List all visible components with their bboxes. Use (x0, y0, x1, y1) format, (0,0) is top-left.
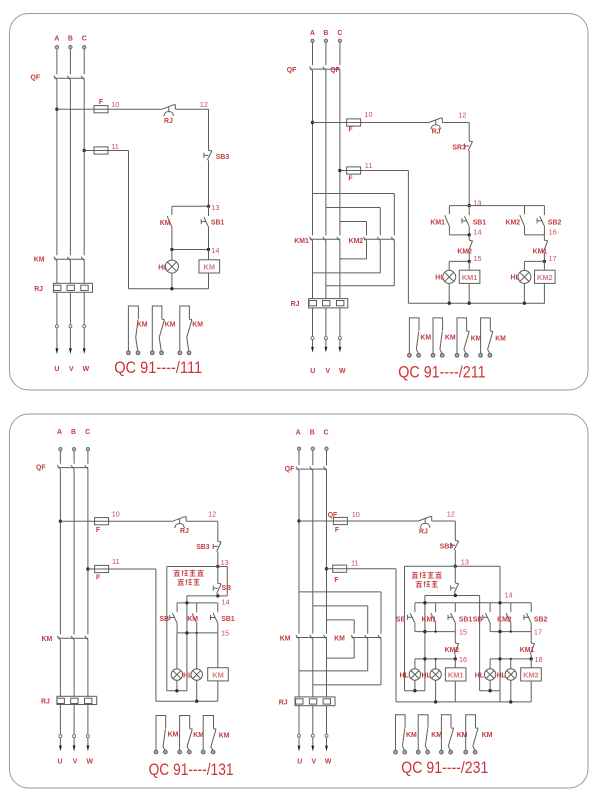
box right conductor (231) (499, 566, 501, 702)
output arrows (131) (59, 745, 89, 751)
rail 16 dots (231) (423, 657, 457, 660)
svg-text:F: F (99, 99, 103, 106)
thermal relay NC contact RJ (211) (429, 118, 442, 129)
svg-text:KM2: KM2 (537, 273, 553, 282)
wire to coil KM (111) (208, 250, 210, 260)
svg-text:13: 13 (211, 203, 219, 212)
label KM aux1 (231) (406, 732, 417, 739)
svg-text:11: 11 (112, 557, 120, 566)
wire phase A middle (211) (312, 70, 314, 235)
node 14 (211) (468, 233, 471, 236)
svg-text:W: W (339, 368, 346, 375)
svg-text:HL: HL (511, 275, 520, 282)
wires to motor terminals (131) (60, 705, 88, 746)
labels U V W (131) (57, 758, 93, 765)
svg-text:KM1: KM1 (430, 219, 445, 226)
svg-text:14: 14 (211, 246, 219, 255)
wire phase C middle (231) (326, 470, 328, 633)
label HL right (211) (511, 275, 520, 282)
svg-text:17: 17 (549, 254, 557, 263)
label 13 (131) (221, 558, 229, 567)
svg-text:KM2: KM2 (445, 647, 460, 654)
output arrows (211) (311, 347, 341, 353)
svg-text:KM: KM (471, 336, 482, 343)
svg-text:SB1: SB1 (473, 219, 487, 226)
svg-text:KM: KM (420, 335, 431, 342)
label KM1 interlock (231) (520, 647, 535, 654)
label KM aux3 (111) (192, 322, 203, 329)
wire loop bottom KM2-c1 to C (211) (340, 241, 367, 259)
svg-text:QF: QF (330, 67, 340, 74)
junction dot rail (131) (185, 601, 188, 604)
remote control box top edge (131) (167, 566, 228, 568)
svg-text:RJ: RJ (41, 699, 50, 706)
wire to lamp HL1 left (231) (414, 659, 416, 669)
indicator lamp HL (111) (165, 260, 178, 273)
auxiliary contact KM 1 (131) (154, 716, 167, 754)
svg-text:10: 10 (352, 510, 360, 519)
control bottom rail (131) (156, 700, 218, 702)
wire loop bottom KM2-c2 to A (231) (299, 639, 368, 671)
svg-text:RJ: RJ (419, 529, 428, 536)
interlock contact KM2 NC (231) (454, 632, 459, 659)
label F fuse-11 (211) (348, 176, 352, 183)
label KM2 (211) (349, 238, 364, 245)
svg-text:SB3: SB3 (216, 154, 230, 161)
junction fuse-10 tap phase A (131) (59, 520, 62, 523)
label 11 (111) (111, 142, 119, 151)
interlock contact KM1 NC (211) (543, 235, 548, 262)
contactor KM bank2 main contacts (231) (351, 635, 381, 639)
label QF second (211) (330, 67, 340, 74)
label SB1 (111) (211, 220, 225, 227)
output arrows (111) (56, 348, 86, 354)
phase input terminals (111) (55, 46, 86, 49)
svg-text:KM1: KM1 (462, 273, 478, 282)
svg-text:KM: KM (168, 731, 179, 738)
svg-text:F: F (96, 527, 100, 534)
indicator lamp HL left (211) (443, 270, 456, 283)
label KM2 aux (211) (506, 219, 521, 226)
label 11 (131) (112, 557, 120, 566)
label SB1 (211) (473, 219, 487, 226)
stop button SR3 NC (211) (465, 141, 473, 151)
wire bar node 14 (211) (449, 234, 469, 236)
label 16 (211) (549, 227, 557, 236)
svg-text:KM2: KM2 (457, 249, 472, 256)
wire lamp2 to rail (211) (523, 283, 525, 303)
stop button SB3 NC (131) (213, 541, 221, 551)
label F fuse-10 (111) (99, 99, 103, 106)
label 14 (231) (505, 591, 513, 600)
wire phase C lower (111) (83, 260, 85, 283)
node 17 (211) (543, 260, 546, 263)
phase input terminals (131) (59, 448, 90, 451)
svg-text:RJ: RJ (279, 700, 288, 707)
label QF (231) (285, 466, 295, 473)
circuit breaker QF (131) (57, 465, 88, 469)
wire bar node 16 (211) (525, 234, 545, 236)
svg-text:SB3: SB3 (440, 543, 454, 550)
label 13 (211) (473, 198, 481, 207)
svg-text:V: V (69, 366, 74, 373)
stop button SB3 NC (231) (451, 541, 459, 551)
label 15 (231) (459, 628, 467, 637)
remote stop button SB NC (231) (451, 566, 459, 595)
svg-text:KM: KM (137, 322, 148, 329)
label SB remote start (131) (160, 616, 170, 623)
label QF left (211) (287, 67, 297, 74)
svg-text:SB1: SB1 (221, 616, 235, 623)
wire to motor U (111) (56, 292, 58, 348)
phase terminal labels A B C (231) (296, 429, 329, 436)
label 16 (231) (459, 655, 467, 664)
junction fuse-10 tap phase A (231) (297, 519, 300, 522)
wire to lamp HL1 right (231) (489, 659, 491, 669)
svg-text:KM: KM (212, 670, 224, 679)
wire phase B middle (111) (69, 79, 71, 255)
remote control box left edge (231) (404, 566, 406, 691)
thermal overload relay RJ block (131) (57, 696, 97, 704)
wire to lamp HL1 (131) (176, 633, 178, 669)
svg-text:W: W (83, 366, 90, 373)
phase terminal labels A B C (111) (54, 35, 86, 42)
svg-text:15: 15 (473, 254, 481, 263)
label F fuse-10 (131) (96, 527, 100, 534)
svg-text:KM: KM (187, 616, 198, 623)
label KM2 interlock (231) (445, 647, 460, 654)
label 12 (111) (200, 100, 208, 109)
remote start button SB NO (131) (170, 603, 177, 633)
indicator lamp HL1 left (231) (409, 669, 420, 680)
svg-text:KM1: KM1 (422, 616, 437, 623)
contactor KM main contacts (131) (57, 636, 88, 640)
node 13 (211) (468, 204, 471, 207)
stub rail (131) (167, 690, 187, 692)
wire lamp1 to stub (131) (176, 680, 178, 691)
start button SB1 NO (231) (448, 603, 455, 632)
svg-text:KM: KM (482, 732, 493, 739)
svg-text:QC 91----/211: QC 91----/211 (398, 363, 485, 381)
wire phase B middle (231) (312, 470, 314, 633)
svg-text:SB1: SB1 (211, 220, 225, 227)
wire to lamp HL2 (211) (523, 261, 525, 270)
svg-text:A: A (296, 429, 301, 436)
remote control box left edge (131) (166, 567, 168, 691)
remote control box label (231) (412, 572, 442, 588)
auxiliary contact KM 1 (111) (126, 306, 139, 355)
wire phase B middle (211) (325, 70, 327, 235)
wire to lamp HL2 right (231) (510, 659, 512, 669)
svg-text:KM: KM (160, 220, 171, 227)
svg-text:QC 91----/131: QC 91----/131 (149, 761, 234, 779)
rail 15 (231) (415, 631, 455, 633)
label F fuse-11 (131) (96, 575, 100, 582)
svg-text:KM2: KM2 (497, 616, 512, 623)
node 15 (211) (468, 260, 471, 263)
wire SB3 to node 13 (131) (217, 551, 219, 566)
label KM bank1 (231) (280, 636, 291, 643)
wire lamp1 to stub (231) (414, 680, 416, 691)
svg-text:QF: QF (31, 75, 41, 82)
contactor coil KM (131) (208, 668, 229, 681)
wire coil to rail (131) (217, 681, 219, 701)
indicator lamp HL2 left (231) (430, 669, 441, 680)
wire 12 vertical (231) (454, 521, 456, 541)
svg-text:KM1: KM1 (520, 647, 535, 654)
fuse F line 11 (111) (94, 147, 108, 154)
node 15 dots (131) (185, 631, 198, 634)
wire line 10 (211) (313, 122, 470, 124)
label KM aux (131) (187, 616, 198, 623)
wire line 11 (111) (84, 151, 128, 289)
auxiliary contact KM 2 (111) (150, 306, 164, 355)
wire phase A middle (231) (298, 470, 300, 633)
svg-text:12: 12 (208, 510, 216, 519)
label KM aux4 (211) (495, 336, 506, 343)
panel frame top (10, 14, 589, 391)
indicator lamp HL1 right (231) (484, 669, 495, 680)
wire 12 vertical (211) (468, 123, 470, 142)
stop button SB3 NC (111) (204, 150, 212, 160)
svg-text:11: 11 (111, 142, 119, 151)
svg-text:KM: KM (280, 636, 291, 643)
svg-text:C: C (85, 429, 90, 436)
wire to lamp HL (111) (171, 250, 173, 261)
labels U V W (111) (54, 366, 89, 373)
label KM2 interlock (211) (457, 249, 472, 256)
stub rail left group (231) (405, 690, 425, 692)
svg-text:12: 12 (200, 100, 208, 109)
wire bar node 15 (211) (449, 260, 469, 262)
label KM1 (211) (294, 238, 309, 245)
svg-text:SB: SB (160, 616, 170, 623)
label KM aux (111) (160, 220, 171, 227)
svg-text:KM: KM (192, 322, 203, 329)
stub junction dot (131) (175, 689, 178, 692)
svg-text:KM: KM (495, 336, 506, 343)
label RJ (131) (41, 699, 50, 706)
label KM aux3 (231) (457, 732, 468, 739)
svg-text:U: U (297, 758, 302, 765)
circuit breaker QF (211) (309, 67, 340, 71)
wire SB3 to node 13 (231) (454, 550, 456, 566)
label SB1 (131) (221, 616, 235, 623)
node 14 dots (111) (170, 248, 210, 251)
wire phase A lower (111) (56, 260, 58, 283)
label KM aux2 (231) (431, 732, 442, 739)
wires to motor terminals (231) (299, 706, 327, 746)
svg-text:C: C (82, 35, 87, 42)
label HL1 right (231) (475, 672, 484, 679)
label SB3 (131) (196, 544, 210, 551)
label 12 (211) (458, 110, 466, 119)
label QF (111) (31, 75, 41, 82)
node 14 (131) (216, 594, 219, 597)
wire to motor W (111) (83, 292, 85, 348)
svg-text:RJ: RJ (432, 129, 441, 136)
wire lamp2 to rail (131) (196, 680, 198, 701)
svg-text:SR3: SR3 (452, 144, 466, 151)
label SB3 (111) (216, 154, 230, 161)
svg-text:12: 12 (458, 110, 466, 119)
svg-text:A: A (54, 35, 59, 42)
svg-text:RJ: RJ (164, 118, 173, 125)
rail 14 (231) (415, 602, 531, 604)
wire phases top (131) (60, 451, 88, 464)
wire to motor V (111) (69, 292, 71, 348)
wire line 10 (131) (60, 520, 217, 522)
wire to lamp HL2 left (231) (435, 659, 437, 669)
svg-text:V: V (73, 758, 78, 765)
svg-text:12: 12 (447, 510, 455, 519)
label SB remote right (231) (473, 616, 483, 623)
wire bar node 14 (111) (172, 249, 209, 251)
label F fuse-10 (231) (335, 527, 339, 534)
self-holding contact KM NO (131) (192, 603, 197, 633)
label KM aux3 (211) (471, 336, 482, 343)
rail 17 (231) (490, 631, 531, 633)
svg-text:HL: HL (158, 265, 167, 272)
fuse F line 10 (211) (347, 119, 361, 126)
fuse F line 10 (111) (94, 106, 108, 113)
auxiliary contact KM 4 (231) (464, 715, 478, 754)
svg-text:U: U (310, 368, 315, 375)
remote control box label (131) (174, 570, 204, 586)
svg-text:SB: SB (222, 585, 232, 592)
svg-text:SB2: SB2 (534, 616, 548, 623)
svg-text:11: 11 (365, 161, 373, 170)
svg-text:QF: QF (36, 465, 46, 472)
label SR3 (211) (452, 144, 466, 151)
wire SB3 to node 13 (111) (208, 160, 210, 206)
label KM aux1 (111) (137, 322, 148, 329)
svg-text:RJ: RJ (291, 301, 300, 308)
auxiliary contact KM 2 (231) (416, 715, 429, 754)
svg-text:HL: HL (400, 672, 409, 679)
interlock contact KM2 NC (211) (468, 235, 473, 262)
junction fuse-11 tap phase C (211) (338, 169, 341, 172)
output arrows (231) (298, 746, 328, 752)
wire phase C middle (111) (83, 79, 85, 255)
circuit breaker QF (111) (54, 76, 85, 80)
svg-text:15: 15 (221, 629, 229, 638)
thermal overload relay RJ heater block (111) (53, 283, 92, 292)
wire phase A middle (131) (59, 469, 61, 635)
label 13 (231) (461, 557, 469, 566)
stub dot left (231) (413, 689, 416, 692)
stub rail right group (231) (480, 690, 500, 692)
start button SB1 NO (131) (211, 603, 218, 633)
svg-text:15: 15 (459, 628, 467, 637)
wire phase A top (111) (56, 49, 58, 74)
label KM aux2 (211) (445, 335, 456, 342)
label 18 (231) (535, 655, 543, 664)
control bottom rail (231) (396, 701, 531, 703)
svg-text:11: 11 (351, 559, 359, 568)
label 14 (111) (211, 246, 219, 255)
svg-text:QF: QF (287, 67, 297, 74)
fuse F line 11 (231) (333, 565, 347, 572)
wire phases top (231) (299, 450, 327, 465)
label 10 (131) (112, 509, 120, 518)
label KM aux3 (131) (219, 732, 230, 739)
label 10 (231) (352, 510, 360, 519)
supply drop right group (231) (479, 596, 481, 691)
label 10 (211) (364, 110, 372, 119)
wire phase C middle (131) (87, 469, 89, 635)
phase terminal labels A B C (131) (57, 429, 90, 436)
svg-text:KM: KM (204, 262, 216, 271)
node 16 (211) (0, 0, 1, 1)
auxiliary contact KM 3 (231) (440, 715, 454, 754)
panel frame bottom (10, 414, 589, 788)
label F fuse-11 (231) (334, 577, 338, 584)
label F fuse-10 (211) (348, 127, 352, 134)
circuit breaker QF (231) (296, 467, 327, 471)
contactor KM2 main contacts (211) (363, 237, 394, 241)
label KM aux2 (131) (193, 732, 204, 739)
svg-text:B: B (323, 30, 328, 37)
label QF stray (231) (328, 512, 338, 519)
label 12 (231) (447, 510, 455, 519)
contactor coil KM2 (231) (521, 659, 542, 702)
wire bar node 17 (211) (524, 260, 544, 262)
svg-text:QF: QF (328, 512, 338, 519)
svg-text:KM1: KM1 (294, 238, 309, 245)
svg-text:A: A (57, 429, 62, 436)
thermal overload relay RJ block (211) (309, 299, 348, 308)
auxiliary contact KM 2 (211) (431, 318, 444, 357)
svg-text:F: F (334, 577, 338, 584)
label KM aux4 (231) (482, 732, 493, 739)
node remote stop (231) (454, 594, 457, 597)
motor terminals (211) (311, 337, 341, 340)
rail junction dots (211) (448, 302, 527, 305)
svg-text:B: B (71, 429, 76, 436)
svg-text:KM2: KM2 (349, 238, 364, 245)
remote control box top edge (231) (405, 565, 501, 567)
thermal relay NC contact RJ (231) (418, 517, 431, 528)
svg-text:W: W (325, 758, 332, 765)
node 13 (111) (207, 205, 210, 208)
label SB3 (231) (440, 543, 454, 550)
thermal relay NC contact RJ (111) (162, 105, 175, 116)
svg-text:KM: KM (193, 732, 204, 739)
wire loop top A to KM2-c3 (211) (313, 194, 395, 236)
svg-text:QF: QF (285, 466, 295, 473)
wire loop bottom KM2-c3 to B (211) (326, 241, 394, 286)
auxiliary contact KM 3 (131) (201, 716, 216, 754)
svg-text:14: 14 (473, 227, 481, 236)
wire loop top C to KM2-c1 (211) (340, 222, 367, 236)
label HL2 right (231) (497, 672, 506, 679)
svg-text:W: W (86, 758, 93, 765)
labels U V W (211) (310, 368, 346, 375)
rail junction dot (131) (195, 700, 198, 703)
wire loop top B to KM2-c2 (231) (313, 606, 368, 634)
indicator lamp HL2 (131) (191, 669, 202, 680)
indicator lamp HL2 right (231) (505, 669, 516, 680)
wire loop bottom KM2-c2 to A (211) (313, 241, 381, 273)
label KM bank2 (231) (334, 636, 345, 643)
start button SB1 NO (111) (201, 206, 208, 249)
svg-text:HL: HL (475, 672, 484, 679)
node 13 (131) (216, 565, 219, 568)
svg-text:KM: KM (431, 732, 442, 739)
supply drop left group (231) (424, 596, 426, 691)
svg-text:F: F (96, 575, 100, 582)
